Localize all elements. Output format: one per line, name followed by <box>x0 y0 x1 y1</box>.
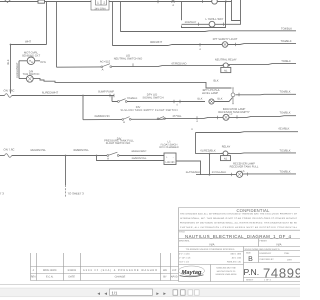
svg-text:N2: N2 <box>224 158 228 161</box>
wire from motor left <box>19 60 27 62</box>
wire pump rail y95.8 <box>12 95 114 97</box>
svg-text:3/18/03: 3/18/03 <box>68 269 77 272</box>
svg-text:CONFIDENTIAL: CONFIDENTIAL <box>236 208 270 213</box>
wire safety light rail y45.5 <box>113 44 297 46</box>
svg-text:A: A <box>123 120 125 124</box>
toolbar page icons <box>173 290 178 295</box>
svg-text:.00 ± .010: .00 ± .010 <box>231 257 241 260</box>
svg-text:NEUTRAL SWITCH NO: NEUTRAL SWITCH NO <box>114 58 143 61</box>
svg-text:TO4/BLK: TO4/BLK <box>127 97 138 100</box>
svg-text:24V GRN: 24V GRN <box>94 7 105 10</box>
lamp lid level <box>209 99 214 104</box>
terminal ticks row1 <box>203 0 226 3</box>
switch A lid neutral <box>101 64 112 72</box>
svg-text:E.C.N.: E.C.N. <box>46 276 54 279</box>
svg-text:RECEIVER TANK EMPTY: RECEIVER TANK EMPTY <box>218 111 250 114</box>
connector box top right <box>226 0 241 24</box>
wire vertical x209.5 relay tap <box>209 154 211 175</box>
svg-text:MRN-13329: MRN-13329 <box>43 269 57 272</box>
terminal tick x197 <box>196 116 198 119</box>
fuse break pump rail <box>0 88 14 97</box>
svg-text:A: A <box>102 68 104 72</box>
node junction x65 <box>65 155 67 157</box>
svg-text:ANGLES ± 2D: ANGLES ± 2D <box>227 261 242 264</box>
svg-text:TO4/BLK: TO4/BLK <box>280 40 291 43</box>
svg-text:6L/RED/BLK: 6L/RED/BLK <box>200 150 215 153</box>
svg-text:NEUTRAL RELAY: NEUTRAL RELAY <box>215 58 237 61</box>
wire tap to lid signal row <box>111 96 113 102</box>
svg-text:TO4/BLK: TO4/BLK <box>279 171 290 174</box>
toolbar background band <box>0 288 300 297</box>
node dot relay tap top <box>209 153 211 155</box>
svg-text:1 OF 4: 1 OF 4 <box>264 279 271 282</box>
svg-text:TO3/BLK: TO3/BLK <box>279 150 290 153</box>
svg-text:►: ► <box>163 291 167 296</box>
svg-text:FINISH: FINISH <box>260 240 268 243</box>
svg-text:3A/GRN/YEL: 3A/GRN/YEL <box>30 149 46 152</box>
svg-text:1"-10" ± 1/4: 1"-10" ± 1/4 <box>179 257 191 260</box>
svg-text:Maytag: Maytag <box>182 270 202 276</box>
wire lid signal row <box>112 101 205 103</box>
svg-text:BLK: BLK <box>213 79 218 82</box>
terminal ticks row2 <box>199 23 224 26</box>
svg-text:NAUTILUS_ELECTRICAL_DIAGRAM_1_: NAUTILUS_ELECTRICAL_DIAGRAM_1_OF_4 <box>185 234 292 239</box>
wire top rail L1 <box>0 1 232 3</box>
svg-text:6A/RED/VIO: 6A/RED/VIO <box>94 115 109 118</box>
svg-text:TOLERANCE UNLESS OTHERWISE: TOLERANCE UNLESS OTHERWISE SPECIFIED <box>186 248 235 251</box>
svg-text:INTERNATIONAL, INC. THIS DRAWI: INTERNATIONAL, INC. THIS DRAWING IS NOT … <box>180 217 298 220</box>
svg-text:4: 4 <box>176 103 178 106</box>
svg-text:-: - <box>173 155 174 159</box>
svg-text:BY: BY <box>163 276 167 279</box>
svg-text:1: 1 <box>97 1 99 5</box>
wire lamp to pressure link <box>214 98 232 102</box>
svg-text:BLK: BLK <box>7 59 10 64</box>
wire bottom rail y155.2 <box>12 155 164 157</box>
terminal ticks receiver lamp <box>232 173 248 177</box>
wire BLK vertical <box>10 45 12 94</box>
svg-text:6L/BLK/WHT: 6L/BLK/WHT <box>16 62 19 78</box>
terminal ticks indicator <box>218 115 238 119</box>
title block frame <box>179 208 301 282</box>
svg-text:N/A: N/A <box>276 243 281 247</box>
svg-text:4: 4 <box>172 3 174 7</box>
float chamber box L99 <box>164 153 176 165</box>
svg-text:3RD/WHT: 3RD/WHT <box>150 41 163 44</box>
wire rail y132 <box>196 131 299 134</box>
svg-text:6L/RED/WHT: 6L/RED/WHT <box>42 92 59 95</box>
svg-text:FLOAT SWITCH NO: FLOAT SWITCH NO <box>106 142 131 145</box>
svg-text:MAYTAG ROUTE 20: MAYTAG ROUTE 20 <box>217 270 236 273</box>
svg-text:JWH: JWH <box>287 259 292 262</box>
wire vertical to WHT node <box>46 2 48 45</box>
svg-text:MONROE IOWA 50208: MONROE IOWA 50208 <box>216 273 238 276</box>
svg-text:◄: ◄ <box>104 291 108 296</box>
toolbar page box <box>110 289 153 295</box>
connector ticks pump <box>110 94 114 97</box>
svg-text:N/A: N/A <box>209 243 214 247</box>
wire from motor right OPN <box>35 60 40 62</box>
revision table <box>31 253 179 281</box>
tub switch S1 <box>19 75 33 82</box>
svg-text:3RD/WHT: 3RD/WHT <box>185 21 197 24</box>
svg-text:SCALE NONE AND DRAW SHAP: SCALE NONE AND DRAW SHAP D <box>245 248 281 251</box>
svg-text:TO4/BLK: TO4/BLK <box>279 91 290 94</box>
connector X mark w/ pin 4 <box>172 0 175 7</box>
wire chamber to receiver rail <box>176 161 201 175</box>
svg-text:6L/PNK/BLK: 6L/PNK/BLK <box>186 171 201 174</box>
svg-text:DRAWN BY: DRAWN BY <box>260 252 272 255</box>
svg-text:L TROLL SWT: L TROLL SWT <box>205 17 223 21</box>
switch pressure tank float <box>107 152 119 160</box>
terminal tick rail y95 <box>238 93 240 96</box>
svg-text:P.N.: P.N. <box>244 267 260 277</box>
svg-text:LVF: LVF <box>172 269 177 272</box>
svg-text:BLK: BLK <box>198 97 203 100</box>
svg-text:CWH: CWH <box>284 252 290 255</box>
svg-text:ET 3: ET 3 <box>0 192 4 196</box>
connector J1 on top rail <box>38 0 45 3</box>
motor M1 <box>27 57 35 65</box>
svg-text:L99 NO: L99 NO <box>166 161 175 164</box>
svg-text:TO4/BLK: TO4/BLK <box>281 27 292 30</box>
svg-text:4: 4 <box>33 269 35 272</box>
svg-text:TO SHEET 3: TO SHEET 3 <box>68 192 85 196</box>
svg-text:ON 7.6C: ON 7.6C <box>4 147 15 151</box>
svg-text:TO4/BLK: TO4/BLK <box>279 112 290 115</box>
svg-text:THE DRAWING AND ALL INFORMATIO: THE DRAWING AND ALL INFORMATION CONTAINE… <box>180 212 298 215</box>
svg-text:B: B <box>248 256 253 263</box>
connector pair mid lid row <box>174 100 180 103</box>
revision table horizontals <box>31 267 179 281</box>
svg-text:.500 ± .005: .500 ± .005 <box>230 253 242 256</box>
svg-text:TO/BLK: TO/BLK <box>281 60 291 63</box>
svg-text:PERMISSION OF MAYTAG(R) INTERN: PERMISSION OF MAYTAG(R) INTERNATIONAL, A… <box>180 221 298 224</box>
terminal tick x158 top rail <box>157 0 159 3</box>
pressure switch link x233 <box>231 87 235 105</box>
wire vertical x195.5 <box>195 133 197 154</box>
revision table verticals <box>31 253 171 281</box>
svg-text:SHEET: SHEET <box>246 279 254 282</box>
node junction x96 <box>96 155 98 157</box>
viewer toolbar <box>0 285 300 297</box>
svg-text:A: A <box>107 156 109 160</box>
node junction dot <box>10 44 12 46</box>
relay K1 neutral <box>221 63 231 73</box>
lamp indicator <box>223 114 229 120</box>
svg-text:6T/RED/VIO: 6T/RED/VIO <box>172 63 187 66</box>
maytag logo <box>179 266 205 277</box>
terminal tick right of lamp <box>235 43 237 46</box>
svg-text:SUMP PUMP: SUMP PUMP <box>98 91 114 94</box>
svg-text:74899: 74899 <box>263 266 300 281</box>
wire vertical x120.5 <box>120 2 122 32</box>
svg-text:3D/BRN/YEL: 3D/BRN/YEL <box>73 149 89 152</box>
svg-text:◄: ◄ <box>97 291 101 296</box>
wire lamp row 2 <box>182 23 226 25</box>
svg-text:OPN: OPN <box>40 61 46 64</box>
svg-text:FURTHER, ALL INFORMATION LICEN: FURTHER, ALL INFORMATION LICENSED HEREIN… <box>180 226 298 229</box>
switch A float rail <box>122 117 131 125</box>
svg-text:CHECKED BY: CHECKED BY <box>260 258 275 261</box>
svg-text:CHANGE: CHANGE <box>115 276 126 279</box>
wire relay rail y153.5 <box>196 152 297 155</box>
svg-text:1/1: 1/1 <box>112 290 118 295</box>
wire vertical x84 to float rail <box>82 96 84 120</box>
svg-text:SIZE: SIZE <box>246 252 251 255</box>
wire vertical x19 <box>18 61 20 79</box>
svg-text:4: 4 <box>199 48 201 51</box>
svg-text:SIGNAL SWITCH: SIGNAL SWITCH <box>142 96 163 99</box>
wire rail y95 <box>236 93 297 96</box>
fuse break bottom rail <box>0 147 14 157</box>
svg-text:RELAY: RELAY <box>222 146 231 149</box>
wire neutral rail y66.5 <box>57 64 297 68</box>
svg-text:APVD: APVD <box>171 276 178 279</box>
svg-text:WA: WA <box>163 269 167 272</box>
switch lid signal <box>118 99 128 103</box>
wire vertical x56.5 <box>56 2 58 68</box>
node junction x84 <box>82 95 84 97</box>
wire lower branch x96 <box>97 156 165 161</box>
relay K2 <box>221 151 231 161</box>
svg-text:3A/BLU/WHT: 3A/BLU/WHT <box>131 150 147 153</box>
wire WHT horizontal <box>11 44 47 46</box>
lamp L1 top right on top rail <box>212 0 218 4</box>
switch dirty float <box>157 116 165 119</box>
lamp safety light <box>222 42 228 48</box>
node dot x209.5 bottom <box>209 174 211 176</box>
svg-text:AC+/115: AC+/115 <box>100 61 111 64</box>
svg-text:BLK: BLK <box>218 97 223 100</box>
wire vertical to sheet 3 <box>65 156 67 186</box>
svg-text:ON 7.6C: ON 7.6C <box>4 88 15 92</box>
svg-text:0-1" ± 1/16: 0-1" ± 1/16 <box>179 253 190 256</box>
svg-text:LEVEL LAMP: LEVEL LAMP <box>202 92 219 95</box>
svg-text:3A/BRN/YEL: 3A/BRN/YEL <box>132 157 148 160</box>
title block divider lines <box>179 230 301 281</box>
svg-text:DATE: DATE <box>68 276 75 279</box>
svg-text:HANDLING MUST BE: HANDLING MUST BE <box>216 266 236 269</box>
svg-text:WHT: WHT <box>25 41 31 44</box>
svg-text:RECEIVER TANK FULL: RECEIVER TANK FULL <box>230 166 259 169</box>
svg-text:U: U <box>191 128 193 131</box>
toolbar separator line <box>0 284 300 286</box>
svg-text:6EV/BLK: 6EV/BLK <box>279 127 290 130</box>
svg-text:6V/YEL/BLK: 6V/YEL/BLK <box>212 171 227 174</box>
wire vertical x112.5 <box>112 2 114 46</box>
svg-text:<10" ± 1/2: <10" ± 1/2 <box>179 261 190 264</box>
svg-text:2T/YEL: 2T/YEL <box>173 115 182 118</box>
connector block 24V (1 2) <box>91 0 109 10</box>
terminal tick pin4 <box>199 43 201 46</box>
title block <box>179 208 301 282</box>
svg-text:RCV CHAMBER: RCV CHAMBER <box>159 146 178 149</box>
wire receiver rail y174.5 <box>196 173 296 176</box>
svg-text:REV: REV <box>31 276 36 279</box>
svg-text:2: 2 <box>103 1 105 5</box>
wire float rail y119 <box>83 116 296 120</box>
paragraph confidential text <box>180 212 298 229</box>
lamp box top right <box>182 2 226 28</box>
svg-text:N1: N1 <box>224 70 228 73</box>
terminal tick B <box>132 63 134 66</box>
wire staircase to pressure node <box>33 78 231 88</box>
svg-text:4: 4 <box>196 120 198 123</box>
wire break squiggle on top rail <box>4 1 11 3</box>
svg-text:SULLION TANK EMPTY FLOAT SWITC: SULLION TANK EMPTY FLOAT SWITCH <box>121 109 178 112</box>
lamp L2 top right <box>209 21 215 27</box>
svg-text:A393 #2 (S#A) & PRESSURE WASH: A393 #2 (S#A) & PRESSURE WASHER <box>83 269 157 272</box>
svg-text:►: ► <box>156 291 160 296</box>
lamp receiver <box>236 171 242 177</box>
svg-text:MATERIAL: MATERIAL <box>179 240 191 243</box>
svg-text:3PT SAFETY LIGHT: 3PT SAFETY LIGHT <box>213 38 238 41</box>
wire rail y31.5 <box>121 30 297 33</box>
